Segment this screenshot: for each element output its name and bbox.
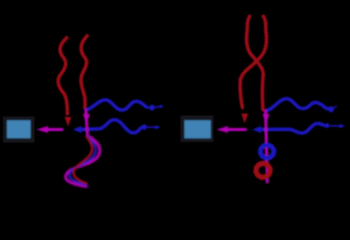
left bottom braid magenta strand [66,136,100,187]
left magenta arrow to block [47,128,62,131]
right red arm A upper (wavy, crossing) [247,17,264,76]
right blue arm lower (wavy chain) [260,124,325,134]
right red arm B arrowhead [241,114,248,124]
left red arm 1 (wavy chain) [58,38,67,114]
left magenta arrow head [37,126,49,133]
left blue arm lower end bead [142,124,147,129]
right red arm B lower [240,79,242,108]
left blue arm lower (wavy chain) [80,120,142,133]
left blue arm lower end tail [148,126,156,128]
right blue arm lower end tail [330,125,340,127]
left bottom braid red strand [73,137,92,184]
left blue arm lower arrowhead [73,126,82,133]
right blue arm upper end bead [328,106,334,112]
left red arm 2 arrowhead (under magenta line) [83,114,90,124]
left blue arm upper end tip [160,105,165,109]
left core block (blue rectangle) [7,120,31,138]
left blue arm upper end bead [149,105,155,111]
right red ring (threaded) [256,164,270,178]
right blue ring (threaded) [260,145,273,158]
right core block (blue rectangle) [185,120,211,138]
right magenta axle line [266,111,268,182]
right blue arm lower arrowhead [253,126,262,133]
left magenta junction stem [86,111,88,137]
right core block border [181,116,214,143]
right blue arm upper (wavy chain) [268,99,328,111]
right magenta arrow to block [227,128,246,131]
right blue arm lower end bead [325,123,330,128]
right magenta arrow head [217,126,229,133]
right blue arm upper end tail [334,106,337,108]
left red arm 2 (wavy chain) [81,36,87,108]
right blue arm lower end tip [340,124,346,128]
left blue arm upper end tail [155,106,161,109]
left bottom braid blue strand [70,136,96,185]
right red arm B upper (wavy, crossing) [241,17,267,80]
right red arm A lower [261,76,265,111]
left blue arm lower end tip [156,125,161,129]
left red arm 1 arrowhead [65,117,72,127]
left blue arm upper (wavy chain) [87,100,148,110]
right red arm A arrowhead (under magenta line) [263,114,270,124]
left core block border [3,117,35,143]
